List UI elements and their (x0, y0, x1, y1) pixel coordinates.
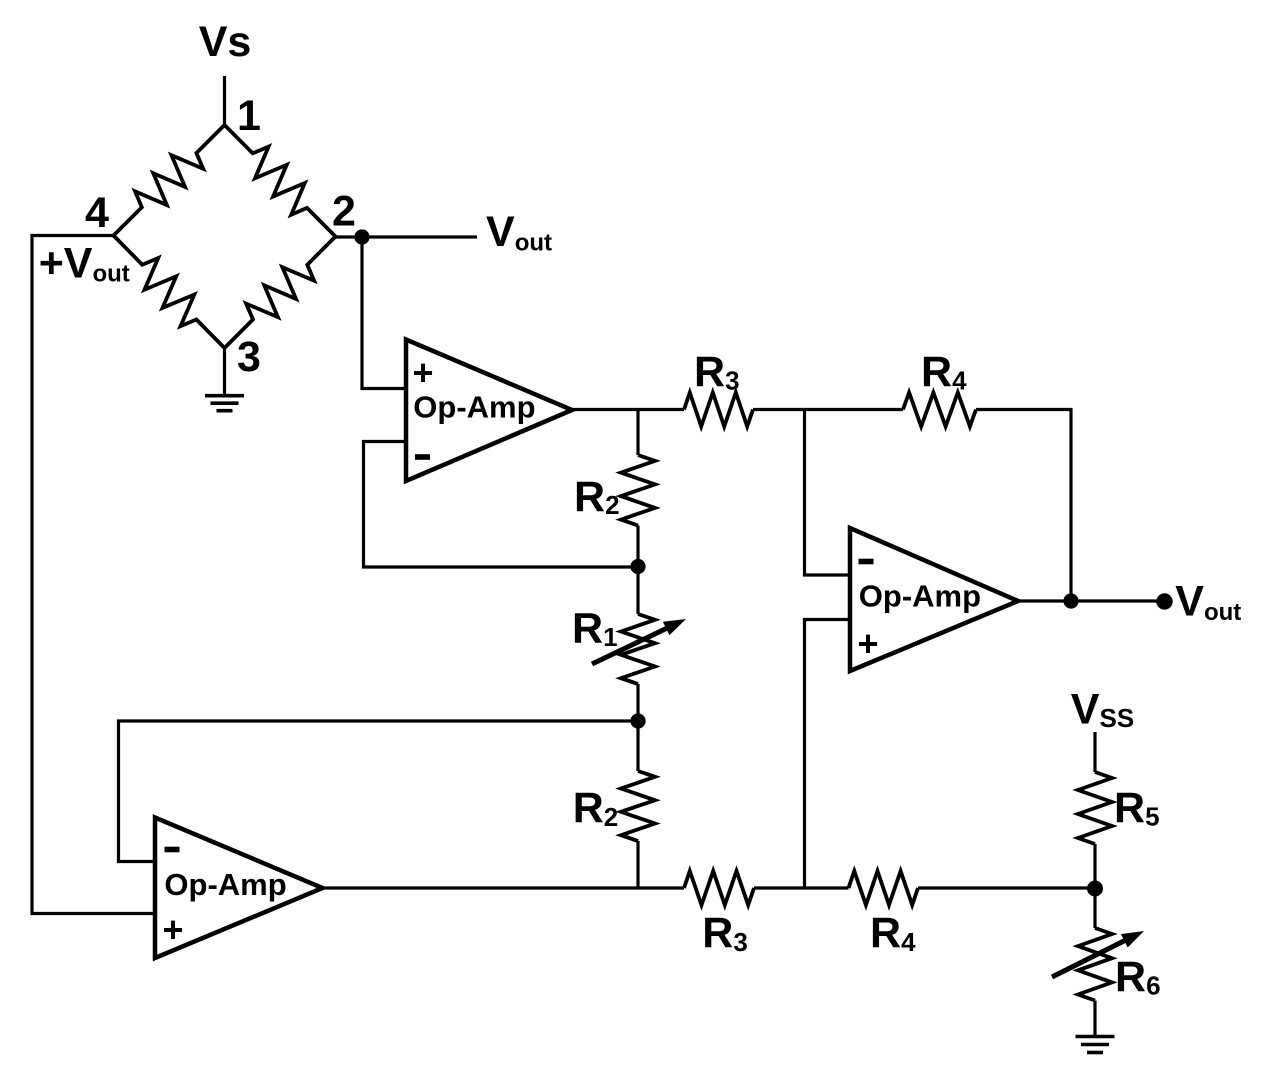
ground (R6) (1076, 1037, 1115, 1053)
wire R2 to junction (636, 526, 639, 568)
svg-text:2: 2 (332, 188, 356, 236)
op-amp U3 (155, 818, 323, 959)
op-amp U3 - pin label (165, 847, 180, 853)
wire R3 to R4 (753, 408, 903, 411)
svg-text:Op-Amp: Op-Amp (413, 390, 535, 425)
wire node 3 to ground (223, 348, 226, 396)
svg-text:+: + (162, 909, 183, 950)
wire op-amp U3 output along bottom rail to R3 lower (323, 886, 685, 889)
wire R4 lower to R5/R6 junction (918, 886, 1095, 889)
resistor R3 (top) (684, 393, 753, 427)
resistor R4 (bottom) (849, 871, 919, 905)
svg-text:+: + (857, 623, 878, 664)
resistor R5 (1078, 772, 1112, 844)
junction op-amp U2 output / feedback (1063, 593, 1078, 608)
bridge resistor node2-node3 (225, 237, 336, 349)
wire R3 lower to R4 lower (754, 886, 849, 889)
wire Vss to R5 (1093, 732, 1096, 772)
junction R5/R6/R4 (1087, 881, 1103, 897)
resistor R1 (variable) (621, 614, 655, 684)
wire op-amp U2 - input from R3/R4 node (805, 410, 851, 576)
svg-text:4: 4 (85, 189, 109, 237)
terminal Vout dot (1156, 593, 1172, 609)
resistor R6 (variable) (1078, 928, 1112, 1001)
wire R4 to feedback corner down to op-amp U2 output (976, 410, 1071, 602)
wire node 2 down to op-amp U1 + input (362, 237, 406, 389)
bridge resistor node3-node4 (114, 236, 225, 349)
bridge resistor node4-node1 (114, 125, 225, 236)
wire op-amp U1 - input feedback loop to R2 junction (364, 442, 639, 568)
wire junction left to op-amp U3 - input loop (119, 721, 639, 862)
op-amp U2 (850, 528, 1018, 671)
wire node 2 to Vout tap (336, 235, 478, 238)
wire junction to R6 (1093, 888, 1096, 928)
resistor R2 (lower) (621, 771, 655, 841)
junction R1/R2 lower (630, 713, 645, 728)
svg-text:Op-Amp: Op-Amp (164, 867, 286, 902)
op-amp U2 - pin label (859, 559, 874, 565)
wire junction to R2 lower (636, 721, 639, 771)
svg-text:Op-Amp: Op-Amp (859, 579, 981, 614)
resistor R1 arrow (592, 627, 670, 664)
wire R5 to junction (1093, 844, 1096, 888)
wire op-amp U2 + input from bottom rail (805, 620, 851, 889)
wire R2 lower to bottom rail (636, 841, 639, 888)
svg-text:3: 3 (237, 333, 261, 381)
wire R1 to junction (636, 684, 639, 721)
resistor R6 arrow (1052, 939, 1128, 977)
junction node 2 (354, 229, 369, 244)
op-amp U1 - pin label (415, 454, 430, 460)
svg-text:+: + (412, 352, 433, 393)
wire node 4 to +Vout rail, down left side, to op-amp U3 + input (32, 236, 155, 914)
wire op-amp U2 output to Vout terminal (1018, 599, 1164, 602)
bridge resistor node1-node2 (225, 125, 336, 237)
junction R2/R1 (630, 559, 645, 574)
ground (bridge) (205, 396, 244, 411)
wire R6 to ground (1093, 1001, 1096, 1037)
wire R2 tap from op-amp U1 output (636, 410, 639, 456)
resistor R3 (bottom) (684, 871, 754, 905)
wire op-amp U1 output to R3 (572, 408, 684, 411)
op-amp U1 (406, 340, 572, 482)
resistor R2 (upper) (621, 455, 655, 526)
svg-text:1: 1 (237, 92, 261, 140)
svg-text:Vs: Vs (199, 18, 252, 66)
wire Vs to node 1 (223, 76, 226, 125)
wire junction to R1 (636, 567, 639, 614)
resistor R4 (top) (903, 393, 976, 427)
